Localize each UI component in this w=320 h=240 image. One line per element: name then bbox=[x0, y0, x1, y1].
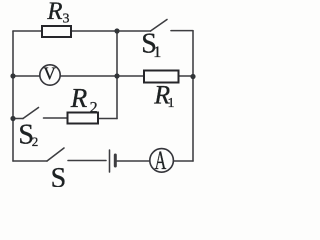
svg-text:3: 3 bbox=[63, 12, 70, 27]
svg-text:1: 1 bbox=[153, 44, 161, 61]
svg-text:R: R bbox=[46, 0, 62, 25]
svg-text:V: V bbox=[43, 64, 56, 84]
svg-text:A: A bbox=[155, 146, 167, 175]
svg-text:2: 2 bbox=[32, 134, 39, 149]
svg-text:R: R bbox=[70, 83, 88, 113]
svg-text:2: 2 bbox=[90, 99, 98, 116]
svg-text:S: S bbox=[51, 163, 67, 187]
svg-text:1: 1 bbox=[168, 96, 175, 111]
